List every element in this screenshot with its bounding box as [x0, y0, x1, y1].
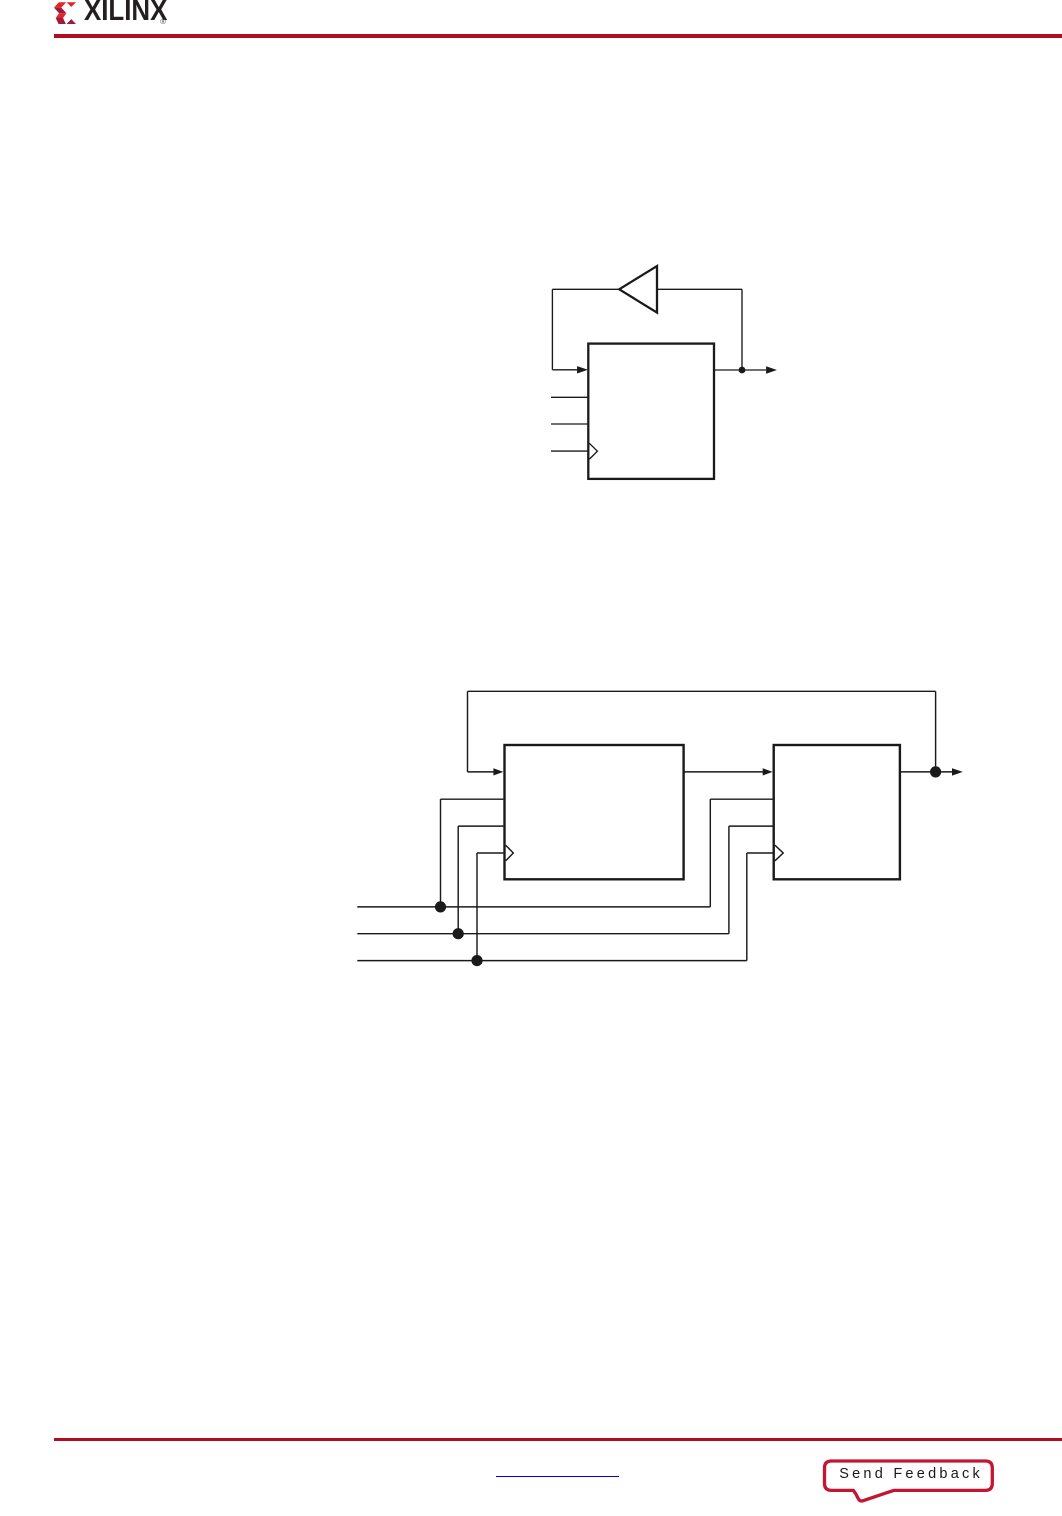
figure 2 feedback left vertical — [467, 691, 469, 772]
figure 1 clock input wire — [551, 450, 588, 452]
bottom rule — [54, 1438, 1062, 1442]
figure 1 feedback wire right vertical — [741, 289, 743, 370]
figure 2 bus junction dot 1 — [435, 901, 446, 912]
figure 2 feedback right vertical — [935, 691, 937, 772]
figure 2 right input vertical 1 — [709, 799, 711, 907]
figure 2 right clock vertical — [746, 853, 748, 961]
figure 2: right block — [774, 745, 900, 879]
figure 2 right input horizontal 2 — [729, 825, 773, 827]
figure 2 bus line 1 — [357, 906, 710, 908]
Send Feedback label — [839, 1467, 983, 1481]
figure 1 feedback wire into block — [552, 369, 578, 371]
Send Feedback button — [815, 1450, 1010, 1510]
figure 2 left clock horizontal — [477, 852, 503, 854]
figure 1 feedback wire top right — [657, 288, 742, 290]
figure 2 output arrowhead — [952, 768, 963, 775]
figure 2 left input horizontal 1 — [441, 798, 504, 800]
Xilinx logo mark — [54, 2, 76, 24]
figure 2 bus junction dot 3 — [471, 955, 482, 966]
figure 1 clock chevron — [589, 443, 597, 459]
figure 2: left block MMCM — [505, 745, 684, 879]
figure 2 inter-block wire — [684, 771, 763, 773]
figure 1 input wire 1 — [551, 396, 588, 398]
figure 1 output arrowhead — [766, 366, 777, 373]
figure 2 bus line 3 — [357, 960, 747, 962]
figure 2 right block clock chevron — [775, 845, 783, 861]
figure 2 output junction dot — [930, 766, 941, 777]
figure 1 feedback buffer BUFG — [619, 266, 657, 313]
footer link underline — [496, 1476, 619, 1478]
figure 1 feedback input arrowhead — [577, 366, 588, 373]
figure 2 left input horizontal 2 — [458, 825, 503, 827]
figure 2 feedback input arrowhead — [493, 768, 503, 775]
figure 2 right input vertical 2 — [728, 826, 730, 934]
figure 1: MMCM block — [588, 344, 714, 479]
figure 2 bus junction dot 2 — [453, 928, 464, 939]
figure 2 output wire — [900, 771, 952, 773]
figure 2 left input vertical 2 — [457, 826, 459, 934]
figure 1 feedback wire top left — [552, 288, 619, 290]
figure 1 output junction dot — [739, 367, 746, 374]
figure 2 feedback top wire — [468, 690, 936, 692]
figure 1 output wire — [714, 369, 766, 371]
figure 2 left clock vertical — [476, 853, 478, 961]
figure 2 left block clock chevron — [506, 845, 514, 861]
figure 2 feedback wire into left block — [468, 771, 495, 773]
figure 2 right input horizontal 1 — [710, 798, 772, 800]
top rule — [54, 34, 1062, 38]
figure 2 right clock horizontal — [747, 852, 773, 854]
figure 1 feedback wire left vertical — [551, 289, 553, 370]
Xilinx wordmark — [84, 1, 167, 22]
figure 2 inter-block arrowhead — [763, 768, 773, 775]
figure 1 input wire 2 — [551, 423, 588, 425]
figure 2 bus line 2 — [357, 933, 729, 935]
figure 2 left input vertical 1 — [440, 799, 442, 907]
